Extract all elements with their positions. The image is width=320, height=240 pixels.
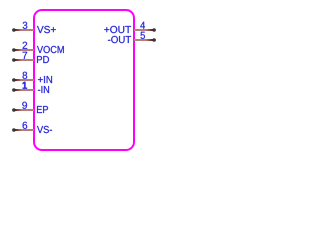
pin 7 wire (13, 59, 34, 61)
pin name EP (37, 106, 48, 113)
pin number 4 (140, 22, 145, 29)
pin 9 dot (12, 108, 16, 112)
pin 5 wire (134, 39, 154, 41)
pin name +OUT (104, 26, 131, 33)
pin number 7 (23, 52, 28, 59)
pin 2 wire (13, 49, 34, 51)
pin 3 wire (13, 29, 34, 31)
pin 5 dot (152, 38, 156, 42)
pin name -OUT (108, 36, 131, 43)
pin number 1 (23, 82, 27, 89)
IC body U1 (34, 10, 134, 150)
pin name VS- (37, 126, 52, 133)
pin name PD (37, 56, 49, 63)
pin 8 dot (12, 78, 16, 82)
pin number 2 (23, 42, 28, 49)
pin 6 wire (13, 129, 34, 131)
pin number 9 (22, 102, 27, 109)
pin name -IN (38, 86, 49, 93)
pin 4 wire (134, 29, 154, 31)
pin 7 dot (12, 58, 16, 62)
pin 1 wire (13, 89, 34, 91)
pin 3 dot (12, 28, 16, 32)
pin 8 wire (13, 79, 34, 81)
pin name VOCM (37, 46, 64, 53)
pin 9 wire (13, 109, 34, 111)
pin 2 dot (12, 48, 16, 52)
pin 6 dot (12, 128, 16, 132)
pin number 8 (23, 72, 28, 79)
pin number 3 (23, 22, 28, 29)
pin number 6 (23, 122, 28, 129)
pin number 5 (141, 32, 146, 39)
pin name VS+ (37, 26, 56, 33)
pin 4 dot (152, 28, 156, 32)
pin name +IN (38, 76, 52, 83)
pin 1 dot (12, 88, 16, 92)
